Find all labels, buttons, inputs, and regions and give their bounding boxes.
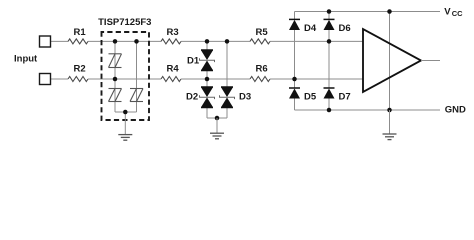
- node dot TISP left rail on upper line: [113, 39, 118, 44]
- svg-text:D7: D7: [339, 92, 351, 103]
- node dot D4 rail on lower line: [292, 77, 297, 82]
- wire VCC rail: [295, 11, 441, 13]
- node dot D1 rail lower line: [205, 77, 210, 82]
- node dot TISP bottom join: [123, 110, 128, 115]
- node dot TISP right rail on upper line: [134, 39, 139, 44]
- resistor R1: [68, 27, 88, 44]
- node dot supply rail on GND: [387, 108, 392, 113]
- svg-text:GND: GND: [445, 104, 466, 115]
- diode D2 bidirectional TVS: [186, 87, 215, 108]
- resistor R5: [250, 27, 270, 44]
- op-amp U1: [363, 29, 421, 92]
- thyristor lower-right in TISP: [130, 89, 143, 102]
- node dot D6 rail on VCC: [327, 9, 332, 14]
- node dot D3 rail upper line: [225, 39, 230, 44]
- svg-text:D4: D4: [304, 23, 317, 34]
- resistor R6: [250, 64, 270, 82]
- node dot D2/D3 join: [215, 116, 220, 121]
- ground below op-amp rail: [383, 134, 397, 140]
- svg-text:D5: D5: [304, 92, 317, 103]
- diode D3 bidirectional TVS: [220, 87, 252, 108]
- input terminal square lower: [40, 74, 51, 85]
- resistor R2: [68, 64, 88, 82]
- svg-text:R6: R6: [256, 64, 268, 75]
- diode D6: [324, 19, 351, 33]
- svg-text:TISP7125F3: TISP7125F3: [98, 17, 151, 28]
- resistor R3: [161, 27, 181, 44]
- svg-text:Input: Input: [14, 54, 38, 65]
- VCC label: [444, 7, 463, 19]
- svg-text:D2: D2: [186, 91, 198, 102]
- wire GND rail: [295, 109, 441, 111]
- svg-text:D3: D3: [239, 91, 251, 102]
- node dot supply rail on VCC: [387, 9, 392, 14]
- svg-text:R5: R5: [256, 27, 269, 38]
- svg-text:V: V: [444, 7, 451, 18]
- wire TISP ground stub: [124, 112, 126, 135]
- diode D5: [289, 88, 317, 103]
- svg-text:D6: D6: [339, 23, 351, 34]
- wire lower signal line y=79: [51, 78, 364, 80]
- svg-text:D1: D1: [187, 56, 200, 67]
- diode D1 bidirectional TVS: [187, 50, 215, 71]
- input terminal square upper: [40, 36, 51, 47]
- wire TISP right rail: [136, 41, 138, 112]
- wire upper signal line y=41.4: [51, 40, 364, 42]
- thyristor upper-left in TISP: [109, 54, 122, 68]
- wire D2/D3 bottom join: [207, 117, 227, 119]
- wire D3 rail x=227: [226, 41, 228, 118]
- ground below TISP box: [118, 135, 132, 141]
- wire D2/D3 ground stub: [216, 118, 218, 133]
- ground below D2/D3: [210, 133, 224, 139]
- node dot D7 rail on GND: [327, 108, 332, 113]
- svg-text:CC: CC: [452, 9, 463, 18]
- node dot D6 rail on upper line: [327, 39, 332, 44]
- resistor R4: [161, 64, 181, 82]
- wire op-amp supply rail x=389.5: [389, 12, 391, 111]
- wire TISP bottom join: [115, 111, 137, 113]
- svg-text:R1: R1: [74, 27, 87, 38]
- svg-text:R2: R2: [74, 64, 86, 75]
- node dot D1 rail upper line: [205, 39, 210, 44]
- diode D4: [289, 19, 317, 33]
- wire op-amp ground stub: [389, 110, 391, 134]
- TISP7125F3 dashed box: [102, 32, 150, 120]
- node dot TISP left rail on lower line: [113, 77, 118, 82]
- wire D6/D7 rail x=329: [328, 12, 330, 111]
- thyristor lower-left in TISP: [109, 89, 122, 102]
- diode D7: [324, 88, 351, 103]
- wire D4/D5 rail x=294.5: [294, 12, 296, 111]
- svg-text:R4: R4: [167, 64, 180, 75]
- wire op-amp output: [421, 60, 440, 62]
- wire TISP left rail: [114, 41, 116, 112]
- wire D1 rail x=207: [206, 41, 208, 118]
- svg-text:R3: R3: [167, 27, 179, 38]
